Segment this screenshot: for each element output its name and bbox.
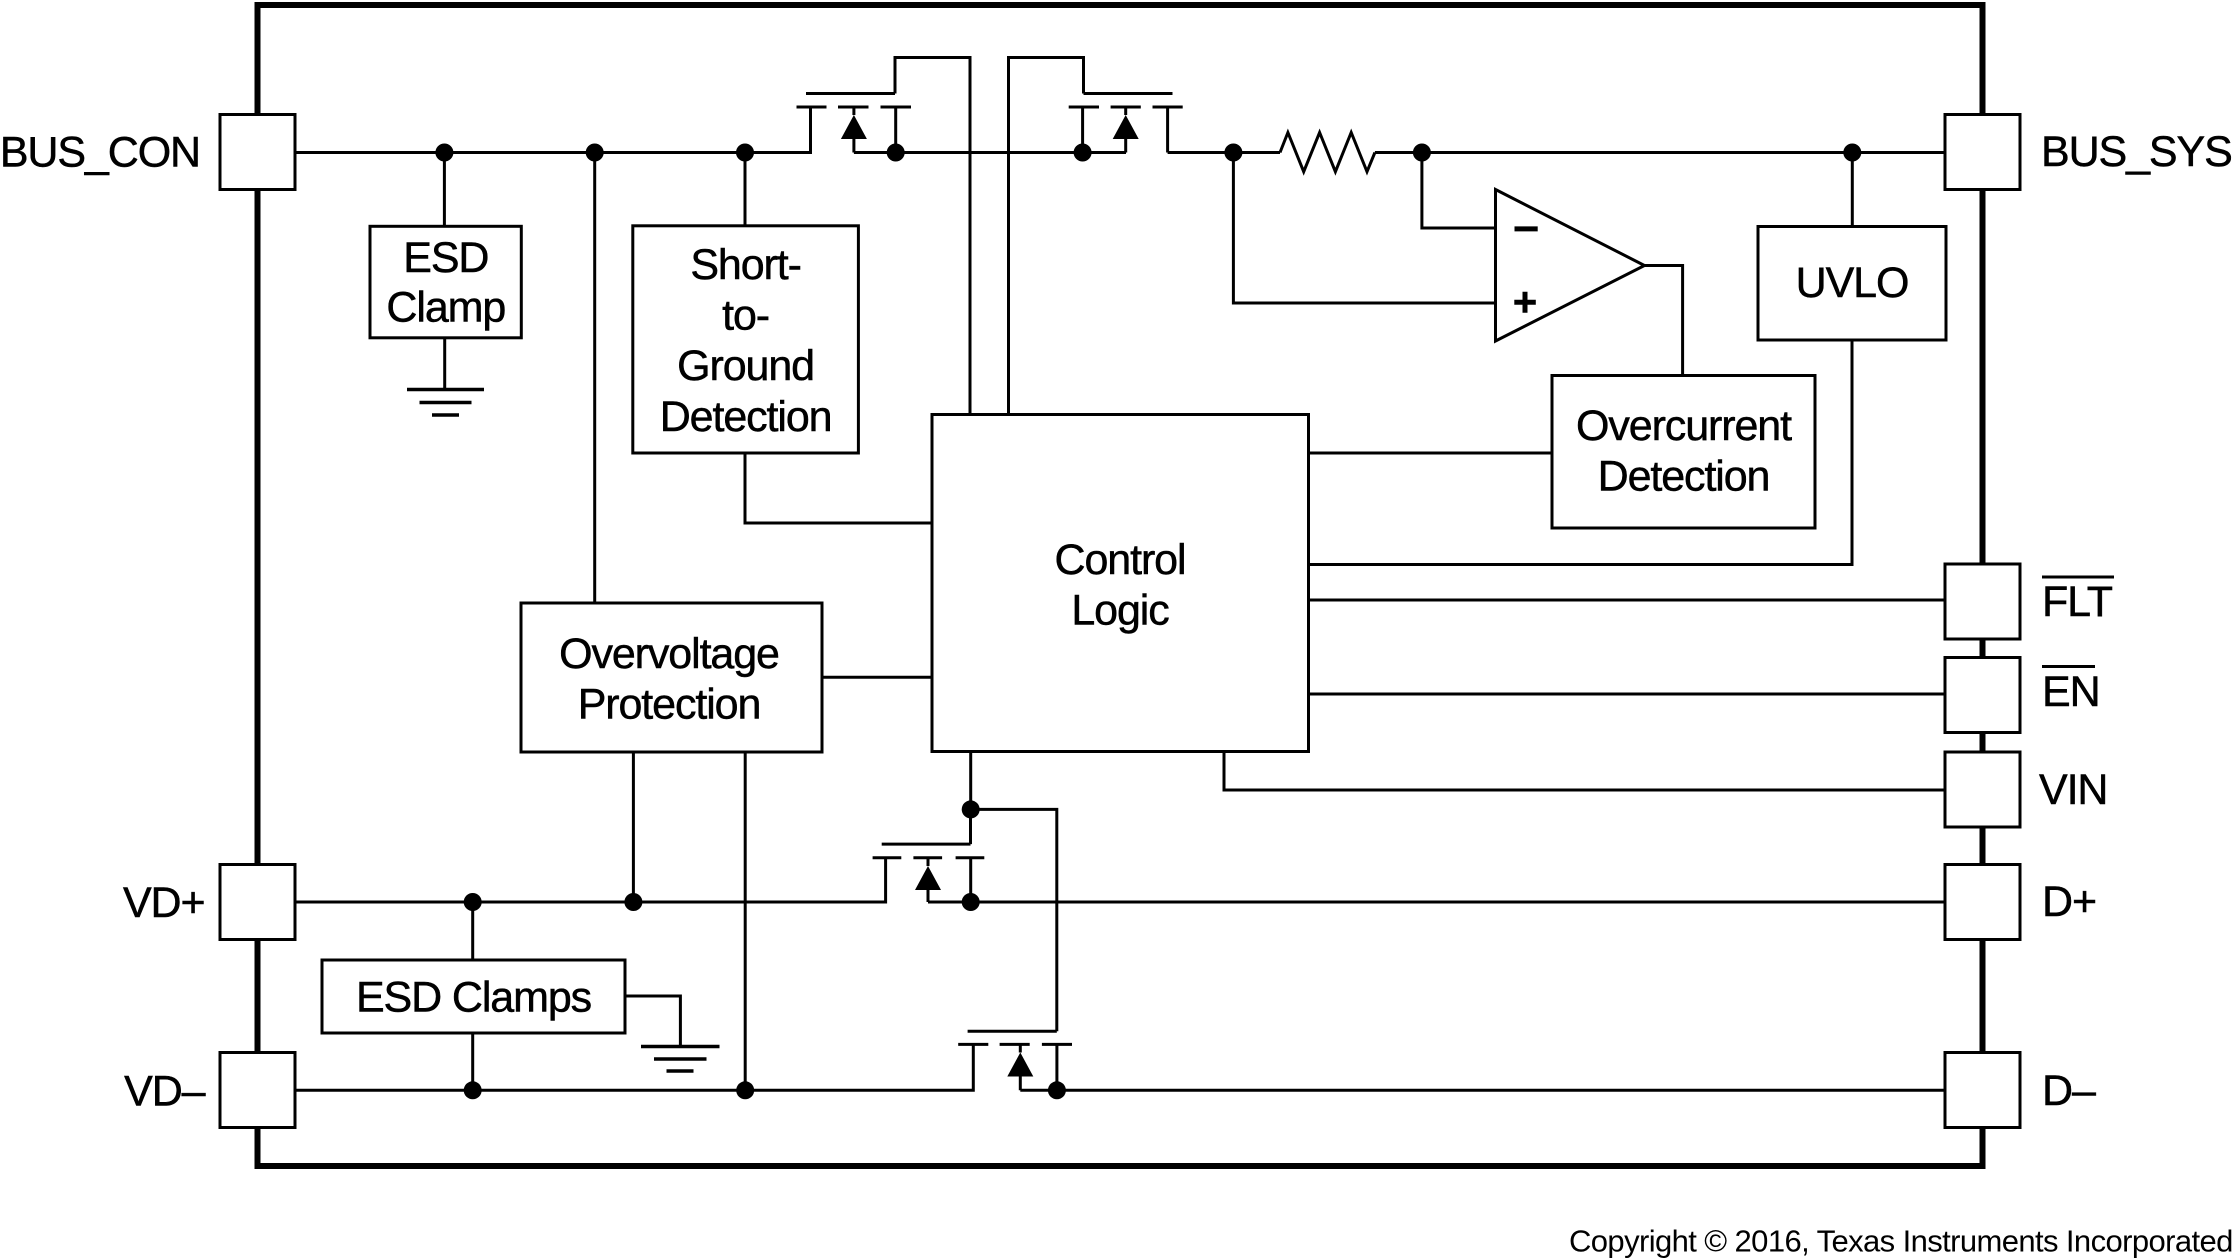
svg-text:Clamp: Clamp bbox=[386, 284, 505, 332]
svg-text:to-: to- bbox=[722, 292, 769, 340]
svg-text:Overcurrent: Overcurrent bbox=[1576, 402, 1792, 450]
svg-text:D–: D– bbox=[2042, 1067, 2096, 1115]
svg-text:FLT: FLT bbox=[2042, 578, 2113, 626]
svg-text:VIN: VIN bbox=[2039, 766, 2107, 814]
svg-text:Overvoltage: Overvoltage bbox=[559, 630, 779, 678]
svg-text:Detection: Detection bbox=[660, 393, 832, 441]
svg-text:Protection: Protection bbox=[578, 681, 761, 729]
svg-text:Ground: Ground bbox=[677, 342, 814, 390]
svg-text:Copyright © 2016, Texas Instru: Copyright © 2016, Texas Instruments Inco… bbox=[1569, 1224, 2233, 1259]
svg-text:UVLO: UVLO bbox=[1796, 259, 1909, 307]
svg-text:VD–: VD– bbox=[124, 1068, 206, 1116]
svg-text:Detection: Detection bbox=[1598, 453, 1770, 501]
svg-text:BUS_CON: BUS_CON bbox=[0, 129, 200, 177]
svg-text:Logic: Logic bbox=[1071, 587, 1169, 635]
svg-text:BUS_SYS: BUS_SYS bbox=[2041, 128, 2232, 176]
svg-text:ESD: ESD bbox=[403, 234, 488, 282]
svg-text:Short-: Short- bbox=[690, 241, 801, 289]
svg-text:Control: Control bbox=[1055, 536, 1186, 584]
svg-text:EN: EN bbox=[2042, 668, 2100, 716]
svg-text:D+: D+ bbox=[2042, 878, 2096, 926]
svg-text:VD+: VD+ bbox=[123, 879, 205, 927]
svg-text:ESD Clamps: ESD Clamps bbox=[356, 974, 591, 1022]
